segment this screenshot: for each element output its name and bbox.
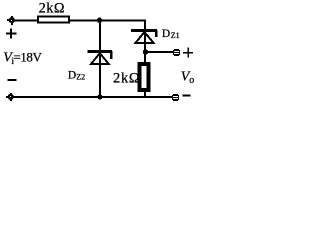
svg-text:=18V: =18V	[13, 50, 42, 65]
resistor R2 2k ohm (vertical)	[140, 64, 149, 90]
zener diode DZ1	[131, 30, 157, 43]
terminal output - (bottom-right)	[172, 94, 179, 101]
wire junction to DZ2	[99, 20, 101, 51]
label DZ2	[68, 69, 85, 81]
label + (input)	[6, 28, 16, 38]
label Vi=18V	[3, 50, 42, 66]
terminal output + (top-right)	[173, 49, 180, 56]
wire output top	[145, 51, 173, 53]
node junction output (dot)	[143, 49, 148, 54]
svg-text:2kΩ: 2kΩ	[39, 1, 65, 17]
terminal input + (top-left)	[7, 16, 15, 25]
resistor R1 2k ohm (top)	[38, 17, 69, 23]
label - (input)	[7, 79, 16, 81]
label - (output)	[183, 95, 191, 97]
label 2k ohm (R2)	[113, 71, 140, 87]
label 2k ohm (R1)	[39, 1, 65, 17]
label + (output)	[183, 48, 193, 58]
terminal input - (bottom-left)	[6, 93, 14, 101]
svg-text:2kΩ: 2kΩ	[113, 71, 140, 87]
wire junction to R2	[144, 53, 146, 64]
node junction bottom (dot)	[97, 94, 102, 99]
zener diode DZ2	[88, 51, 113, 64]
svg-text:o: o	[189, 75, 194, 86]
svg-text:Z1: Z1	[171, 31, 180, 40]
wire bottom	[14, 96, 173, 98]
wire R2 to bottom	[144, 91, 146, 97]
node junction top (dot)	[97, 18, 102, 23]
label DZ1	[162, 28, 180, 40]
svg-text:Z2: Z2	[76, 72, 85, 81]
wire DZ2 to bottom	[99, 52, 101, 97]
svg-text:D: D	[162, 28, 170, 40]
wire top	[15, 21, 146, 30]
svg-text:D: D	[68, 69, 76, 81]
wire DZ1 to junction	[144, 31, 146, 52]
label Vo	[181, 70, 195, 86]
